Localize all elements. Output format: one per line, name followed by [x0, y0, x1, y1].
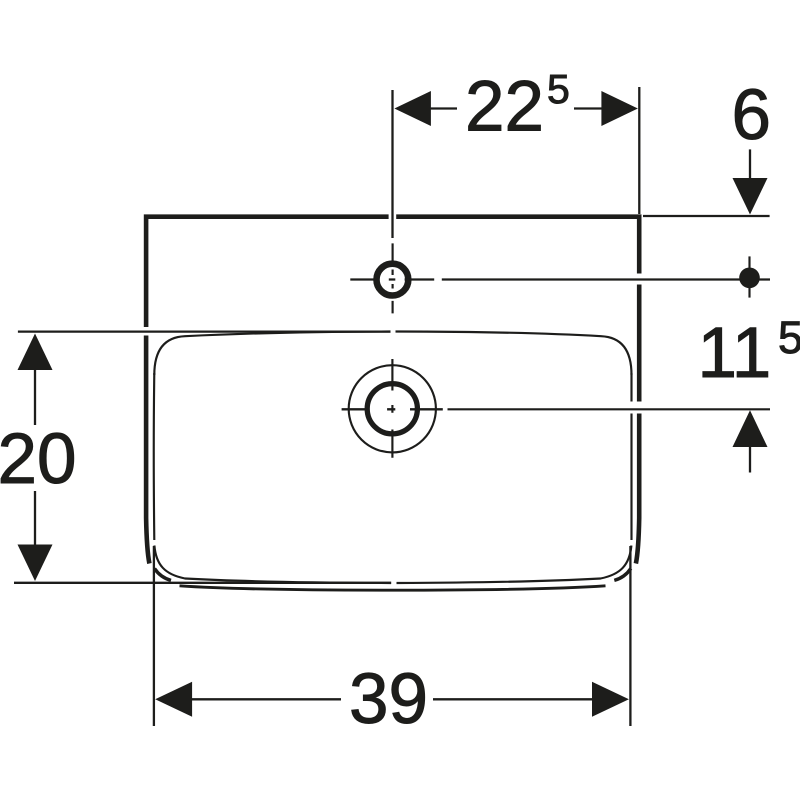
- dimension 39 line right segment: [433, 698, 592, 700]
- dimension 6 down arrowhead: [733, 178, 768, 215]
- dimension 6 arrow tail: [749, 149, 751, 180]
- inner basin side edges: [154, 373, 632, 540]
- washbasin outer top edge and upper corners: [146, 217, 639, 327]
- dimension 22.5 right arrowhead: [601, 91, 638, 126]
- dimension 6 reference line (top edge extended right): [643, 215, 770, 217]
- drain centerline reference line to the right (11.5 ref): [448, 408, 771, 410]
- dimension 22.5 line right segment: [574, 107, 602, 109]
- dimension 20 top reference line: [18, 330, 391, 332]
- washbasin outer right edge: [636, 285, 639, 564]
- washbasin outer bottom-right corner fragment: [614, 569, 631, 581]
- dimension 39 left extension line: [153, 546, 155, 726]
- inner basin top edge: [154, 332, 631, 376]
- faucet hole vertical centerline dashes: [392, 243, 394, 313]
- dimension 22.5 left arrowhead: [394, 91, 431, 126]
- faucet hole horizontal centerline dashes: [350, 278, 434, 280]
- dimension 22.5 right extension line: [638, 87, 640, 214]
- faucet hole: [377, 264, 409, 296]
- washbasin outer left edge: [146, 336, 149, 564]
- dimension 20 down arrowhead: [18, 545, 53, 582]
- reference dot on faucet centerline: [748, 256, 750, 297]
- inner basin bottom-left corner and bottom edge: [154, 546, 631, 584]
- drain inner ring: [367, 384, 417, 434]
- drain horizontal centerline dashes: [342, 408, 443, 410]
- dimension 20 bottom reference line: [14, 582, 391, 584]
- dimension 39 left arrowhead: [155, 682, 192, 717]
- dimension 39 right arrowhead: [592, 682, 629, 717]
- svg-text:5: 5: [778, 312, 800, 363]
- svg-text:39: 39: [349, 660, 428, 739]
- faucet centerline extension to right reference dot: [442, 278, 770, 280]
- svg-text:6: 6: [732, 76, 772, 155]
- svg-text:11: 11: [698, 314, 772, 393]
- washbasin outer bottom front sweep: [180, 586, 606, 590]
- dimension 22.5 line left segment: [431, 107, 457, 109]
- dimension 11.5 arrow tail: [749, 446, 751, 473]
- dimension 39 line left segment: [192, 698, 341, 700]
- svg-text:20: 20: [0, 420, 76, 499]
- drain outer circle: [349, 365, 436, 452]
- dimension 11.5 up arrowhead: [733, 410, 768, 447]
- dimension 39 right extension line: [629, 546, 631, 726]
- dimension 20 vertical line upper segment: [34, 368, 36, 425]
- dimension 20 up arrowhead: [18, 334, 53, 371]
- svg-text:22: 22: [465, 68, 544, 147]
- dimension 22.5 left extension line: [391, 90, 393, 238]
- drain vertical centerline dashes: [391, 359, 393, 458]
- washbasin outer bottom-left corner fragment: [155, 569, 172, 581]
- dimension 20 vertical line lower segment: [34, 491, 36, 546]
- svg-text:5: 5: [547, 66, 570, 112]
